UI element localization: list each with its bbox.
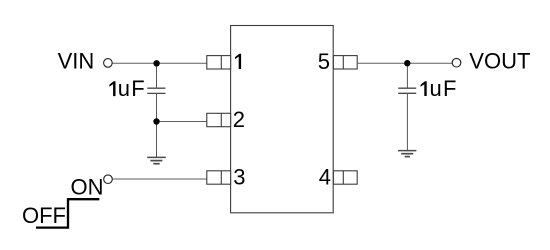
wire junction to pin 2 (157, 121, 207, 123)
svg-text:2: 2 (233, 107, 245, 132)
wire junction to C2 top (406, 63, 408, 87)
wire junction to C1 top (156, 63, 158, 88)
value label 1uF (C1) (109, 81, 115, 96)
junction node pin5 / C2 (404, 60, 410, 66)
capacitor C1 (147, 88, 165, 93)
svg-text:ON: ON (71, 175, 104, 200)
wire junction to ground (156, 121, 158, 157)
waveform annotation OFF level (36, 199, 99, 227)
value label 1uF (C2) (421, 81, 427, 96)
terminal VOUT (452, 58, 461, 67)
ground left (147, 157, 166, 163)
pin 1 number (235, 54, 241, 69)
pin 3 (207, 171, 231, 184)
svg-text:5: 5 (318, 49, 330, 74)
pin 4 (333, 171, 357, 184)
junction node VIN / C1 (153, 60, 159, 66)
wire VIN to pin 1 (112, 62, 206, 64)
svg-text:4: 4 (319, 164, 331, 189)
svg-text:u: u (429, 76, 441, 101)
svg-text:F: F (131, 76, 144, 101)
pin 1 (207, 56, 231, 69)
svg-text:VOUT: VOUT (469, 49, 530, 74)
svg-text:F: F (443, 76, 456, 101)
wire C1 bottom to junction (156, 93, 158, 121)
wire ON/OFF terminal to pin 3 (113, 178, 207, 180)
junction node C1 / pin 2 / ground (153, 118, 159, 124)
IC U1 body (231, 26, 334, 213)
svg-text:u: u (118, 76, 130, 101)
pin 2 (207, 113, 231, 126)
svg-text:OFF: OFF (22, 203, 66, 228)
terminal VIN (104, 59, 113, 68)
svg-text:VIN: VIN (58, 49, 95, 74)
svg-text:3: 3 (233, 164, 245, 189)
wire pin 5 to VOUT (357, 62, 452, 64)
ground right (398, 151, 416, 157)
pin 5 (333, 56, 357, 69)
wire C2 bottom to ground (406, 93, 408, 150)
terminal ON/OFF (104, 175, 113, 184)
capacitor C2 (398, 88, 416, 93)
